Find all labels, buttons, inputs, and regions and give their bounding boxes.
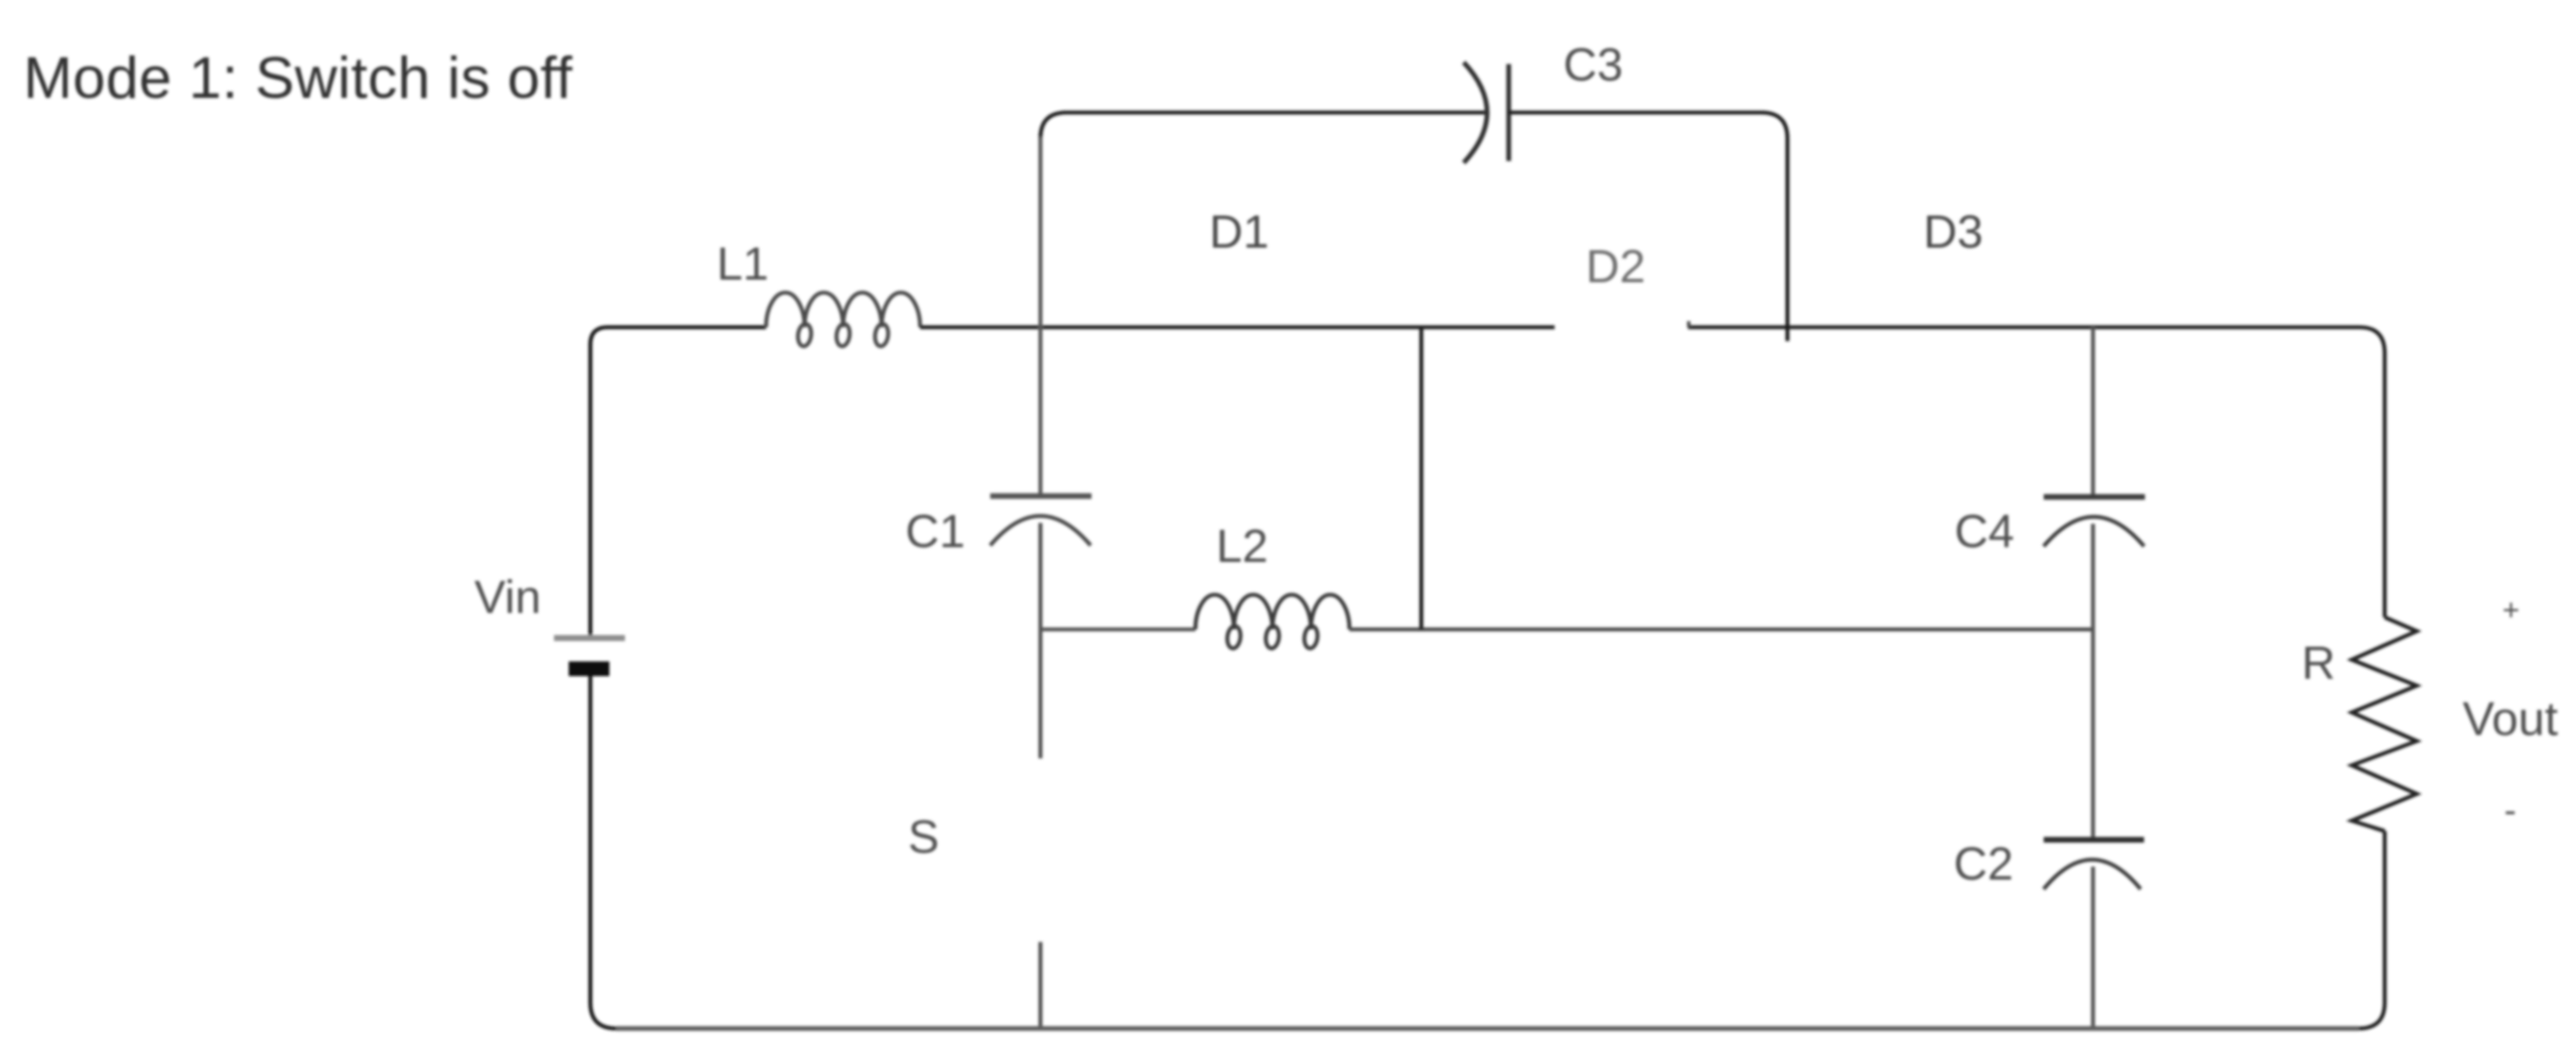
inductor L2 — [1195, 595, 1349, 649]
battery Vin thin plate — [554, 635, 625, 642]
svg-text:Vin: Vin — [474, 571, 541, 623]
svg-text:D2: D2 — [1586, 241, 1645, 293]
capacitor C2 top plate — [2044, 837, 2144, 843]
diode D2 (open gap in wire) : right segment — [1688, 326, 2360, 330]
svg-text:C4: C4 — [1955, 506, 2014, 558]
wire: C1 branch corner at top rail — [1040, 113, 1066, 139]
capacitor C4 curved plate — [2044, 517, 2144, 546]
capacitor C1 top plate — [990, 493, 1092, 500]
capacitor C1 curved plate — [990, 516, 1091, 545]
svg-text:Mode 1: Switch is off: Mode 1: Switch is off — [23, 45, 573, 111]
wire: junction vertical (main node down to L2 right node) — [1420, 327, 1424, 629]
svg-text:Vout: Vout — [2463, 692, 2558, 745]
wire: right branch bottom (R to bottom rail) — [2359, 831, 2385, 1028]
wire: C4 to lower node — [2091, 524, 2096, 629]
svg-text:L1: L1 — [717, 238, 769, 290]
switch S (open): lower stub to bottom rail — [1039, 942, 1043, 1028]
wire: lower branch right (L2 to C4 node) — [1349, 628, 2093, 632]
wire: C1 to switch S (upper stub) — [1039, 523, 1043, 758]
wire: left loop top (Vin+ to L1) — [590, 327, 766, 636]
capacitor C4 top plate — [2044, 494, 2145, 500]
capacitor C3 straight plate — [1506, 64, 1511, 161]
capacitor C2 curved plate — [2044, 860, 2141, 889]
wire: right branch top (main wire corner down to R) — [2360, 327, 2385, 617]
svg-text:R: R — [2302, 637, 2335, 689]
svg-text:D3: D3 — [1923, 206, 1983, 258]
svg-text:C1: C1 — [905, 506, 965, 558]
wire: C2 to bottom rail — [2091, 867, 2096, 1028]
svg-text:C3: C3 — [1563, 39, 1623, 91]
capacitor C3 curved plate — [1464, 62, 1487, 163]
svg-text:L2: L2 — [1216, 520, 1268, 572]
wire: C4 branch (main wire down to C4) — [2091, 327, 2096, 496]
svg-text:+: + — [2502, 594, 2520, 627]
svg-text:-: - — [2504, 790, 2516, 830]
svg-text:S: S — [908, 811, 939, 863]
resistor R — [2352, 617, 2417, 831]
wire: lower node down to C2 — [2091, 629, 2096, 839]
battery Vin thick plate — [569, 661, 609, 676]
inductor L1 — [766, 293, 920, 347]
wire: tiny stub at D2 right segment end — [1687, 321, 1690, 327]
wire: lower branch left (C1 node to L2) — [1040, 628, 1195, 632]
wire: top rail right segment (C3 to junction above D3) — [1509, 113, 1787, 341]
wire: left loop bottom (Vin- to bottom rail) — [590, 676, 616, 1028]
wire: top rail left segment (to C3) — [1066, 111, 1485, 115]
wire: bottom rail — [616, 1026, 2359, 1031]
svg-text:D1: D1 — [1209, 206, 1269, 258]
svg-text:C2: C2 — [1954, 838, 2013, 890]
wire: main node (L1 to D2 gap) — [920, 326, 1555, 330]
wire: C1 branch vertical (top rail down to C1) — [1039, 137, 1043, 496]
